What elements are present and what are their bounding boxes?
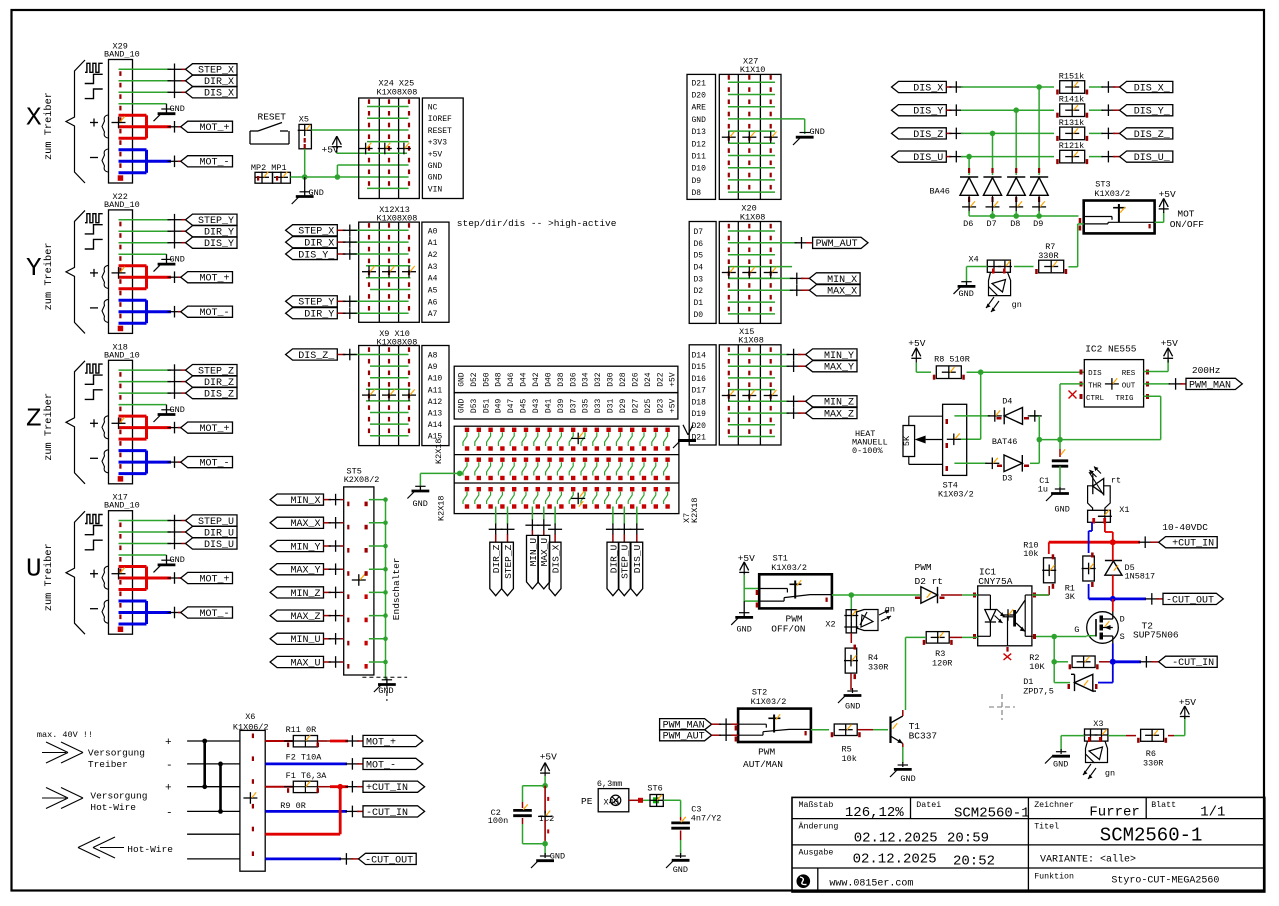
svg-text:GND: GND — [1053, 760, 1068, 770]
svg-text:D2 rt: D2 rt — [915, 576, 944, 587]
wire DIR_Z from K2X18 — [489, 507, 503, 543]
svg-text:A0: A0 — [428, 227, 438, 236]
connector ST4 K1X03/2 — [938, 404, 974, 499]
plus/minus braces Z — [90, 416, 108, 473]
wire STEP_U — [119, 515, 186, 527]
svg-text:DIS_U_: DIS_U_ — [1134, 153, 1171, 164]
wire DIS_X from K2X18 — [548, 507, 562, 543]
svg-text:GND: GND — [457, 372, 466, 387]
svg-text:330R: 330R — [868, 663, 888, 673]
svg-text:+CUT_IN: +CUT_IN — [1172, 539, 1214, 550]
wire THR loop — [1037, 384, 1085, 443]
svg-text:ON/OFF: ON/OFF — [1170, 219, 1205, 230]
pushbutton RESET — [250, 112, 289, 145]
plus minus terminals — [165, 737, 173, 820]
wire R6 to +5V — [1168, 717, 1185, 736]
flag MIN_Z — [270, 587, 323, 600]
svg-text:GND: GND — [428, 162, 443, 171]
ground C2 — [531, 852, 565, 868]
svg-text:0-100%: 0-100% — [852, 446, 884, 456]
flag STEP_X — [286, 225, 338, 238]
wires X12X13 internal rows — [351, 230, 411, 313]
supply +5V at C2 — [540, 752, 557, 786]
svg-text:+5V: +5V — [738, 553, 755, 564]
svg-text:DIR_Y: DIR_Y — [304, 310, 334, 321]
svg-text:DIS_X_: DIS_X_ — [1134, 83, 1171, 94]
svg-text:MP2 MP1: MP2 MP1 — [251, 163, 287, 173]
svg-text:GND: GND — [428, 174, 443, 183]
svg-text:D47: D47 — [507, 399, 516, 414]
svg-text:D33: D33 — [594, 399, 603, 414]
svg-text:STEP_Z: STEP_Z — [503, 544, 514, 579]
connector X5 — [298, 115, 312, 149]
wire MAX_U — [324, 656, 344, 668]
ground X22 — [154, 254, 185, 271]
title www — [829, 878, 913, 889]
resistor R8 510R — [933, 355, 970, 380]
svg-text:DIR_Z: DIR_Z — [491, 544, 502, 573]
svg-text:D8: D8 — [1010, 219, 1020, 229]
svg-text:zum Treiber: zum Treiber — [43, 393, 55, 461]
svg-text:U: U — [26, 554, 42, 584]
svg-text:D49: D49 — [495, 399, 504, 414]
connector X17 BAND_10 — [104, 493, 140, 635]
brace group U axis — [26, 511, 85, 634]
svg-text:X3: X3 — [1093, 719, 1103, 729]
svg-text:A8: A8 — [428, 352, 438, 361]
svg-text:F2 T10A: F2 T10A — [286, 753, 323, 763]
svg-text:DIS: DIS — [1088, 370, 1102, 378]
wire R3 to IC1 — [950, 636, 978, 638]
wire R7 to X4 — [1014, 266, 1034, 268]
resistor R10 10K — [1023, 541, 1056, 589]
diode D6 BA46 — [960, 168, 978, 229]
connector X29 BAND_10 — [104, 42, 140, 184]
svg-text:GND: GND — [900, 774, 915, 784]
flag MOT_- U — [181, 607, 233, 620]
fuse F1 T6,3A / R9 0R — [280, 771, 327, 811]
flag DIS_X_ — [1120, 81, 1173, 94]
flag MOT_- Z — [181, 457, 233, 470]
wire RES to +5V — [1144, 360, 1169, 372]
svg-text:1N5817: 1N5817 — [1125, 572, 1156, 582]
connector X27 K1X10 — [719, 57, 781, 200]
svg-text:D5: D5 — [694, 252, 704, 261]
svg-text:10k: 10k — [842, 754, 857, 764]
flag MIN_Z right — [806, 396, 857, 409]
wire MIN_Y — [324, 540, 344, 552]
svg-text:+5V: +5V — [1161, 338, 1178, 349]
pin label box X20 — [689, 222, 716, 324]
svg-text:+5V: +5V — [1179, 697, 1196, 708]
arrow Hot-Wire — [78, 837, 124, 858]
svg-text:IC2 NE555: IC2 NE555 — [1085, 344, 1137, 355]
flag DIS_U vertical — [631, 542, 643, 596]
capacitor C1 1u — [1038, 461, 1068, 495]
svg-text:D7: D7 — [987, 219, 997, 229]
svg-text:R15: R15 — [1059, 72, 1074, 82]
wire MIN_Z — [324, 587, 344, 599]
label PWM AUT/MAN — [743, 747, 783, 771]
svg-text:K2X18: K2X18 — [690, 497, 700, 523]
svg-text:GND: GND — [810, 127, 825, 137]
resistor R6 330R — [1137, 729, 1167, 768]
wire DIS_X — [119, 87, 186, 99]
wire PWM_AUT — [795, 237, 813, 249]
svg-text:PE: PE — [581, 796, 593, 807]
wires X15 internal rows — [728, 355, 789, 437]
svg-text:K2X18: K2X18 — [437, 495, 447, 521]
svg-text:D6: D6 — [963, 219, 973, 229]
pin label box X24X25 — [422, 98, 463, 199]
svg-text:A12: A12 — [428, 398, 443, 407]
label PWM OFF/ON — [771, 614, 805, 635]
svg-text:120R: 120R — [932, 659, 952, 669]
svg-text:02.12.2025: 02.12.2025 — [854, 831, 938, 847]
switch ST1 K1X03/2 — [756, 554, 832, 609]
label max 40V — [37, 730, 93, 740]
flag MIN_U vertical — [527, 535, 539, 589]
svg-text:-: - — [166, 808, 173, 820]
svg-text:D21: D21 — [692, 79, 707, 88]
wire MIN_X — [790, 273, 810, 285]
wire DIS_X to diode — [1038, 87, 1040, 175]
svg-text:D39: D39 — [557, 399, 566, 414]
connector X1 — [1088, 505, 1130, 524]
svg-text:Versorgung: Versorgung — [88, 748, 145, 759]
svg-text:1k: 1k — [1074, 95, 1084, 105]
svg-text:D43: D43 — [532, 399, 541, 414]
svg-text:MOT_-: MOT_- — [199, 158, 229, 169]
svg-text:BAND_10: BAND_10 — [104, 350, 140, 360]
wire DIR_Y — [337, 307, 357, 319]
svg-text:D7: D7 — [694, 228, 704, 237]
svg-text:MAX_Y: MAX_Y — [290, 566, 320, 577]
svg-text:Datei: Datei — [916, 800, 941, 810]
svg-text:GND: GND — [378, 686, 393, 696]
svg-text:Titel: Titel — [1034, 822, 1059, 832]
wire MIN_Z — [787, 396, 806, 408]
flag MAX_U vertical — [538, 535, 550, 589]
ground X3 — [1045, 749, 1070, 770]
svg-text:TRIG: TRIG — [1116, 395, 1135, 403]
connector X15 K1X08 — [719, 327, 781, 445]
flag DIR_U vertical — [607, 542, 619, 596]
svg-text:Styro-CUT-MEGA2560: Styro-CUT-MEGA2560 — [1111, 876, 1219, 887]
svg-text:GND: GND — [170, 254, 185, 264]
flag PWM_MAN right — [1186, 378, 1242, 391]
svg-text:MIN_Z: MIN_Z — [290, 589, 320, 600]
flag DIS_X — [186, 87, 238, 100]
wire -CUT_IN net — [1110, 656, 1159, 668]
resistor R14 1k — [1056, 95, 1088, 118]
resistor R15 1k — [1056, 72, 1088, 95]
diode D9 BA46 — [1030, 168, 1048, 229]
svg-text:gn: gn — [885, 605, 895, 615]
svg-text:ST3: ST3 — [1095, 180, 1110, 190]
wire STEP_U from K2X18 — [617, 507, 631, 543]
wire DIS_U from K2X18 — [630, 507, 644, 543]
svg-text:D52: D52 — [470, 372, 479, 387]
svg-text:Blatt: Blatt — [1151, 800, 1176, 810]
svg-text:DIS_Z: DIS_Z — [913, 130, 943, 141]
wire STEP_Z — [119, 364, 186, 376]
svg-text:VARIANTE: <alle>: VARIANTE: <alle> — [1040, 854, 1136, 866]
svg-text:Furrer: Furrer — [1089, 805, 1139, 821]
ground X17 — [154, 555, 185, 572]
svg-text:MOT_+: MOT_+ — [199, 274, 229, 285]
wire GND pin4 X18 — [119, 404, 167, 406]
wire +CUT_IN net — [1049, 536, 1159, 548]
wire junction down to ST4 — [947, 372, 981, 445]
led rt at X1 — [1088, 467, 1122, 511]
supply +5V at X24X25 — [322, 136, 408, 155]
svg-text:MOT_-: MOT_- — [199, 609, 229, 620]
svg-text:D15: D15 — [692, 363, 707, 372]
wire diode common to ST3 — [969, 215, 1078, 217]
wire MAX_Y — [787, 360, 806, 372]
svg-text:MAX_U: MAX_U — [290, 658, 320, 669]
wire IC1 collector to R10 — [1032, 594, 1049, 596]
wire RESET net — [311, 129, 408, 131]
svg-text:X2: X2 — [825, 620, 835, 630]
wire GND pin4 X22 — [119, 253, 167, 255]
svg-text:MAX_X: MAX_X — [827, 287, 857, 298]
svg-text:MOT_-: MOT_- — [366, 760, 396, 771]
wire R10 top — [1048, 542, 1050, 554]
flag MOT_+ X — [181, 121, 233, 134]
connector ST6 — [647, 784, 663, 807]
svg-text:200Hz: 200Hz — [1192, 365, 1221, 376]
flag DIS_U_ — [1120, 151, 1173, 164]
wire X5 to GND junction — [304, 149, 306, 177]
brace group Z axis — [26, 361, 85, 484]
svg-text:Zeichner: Zeichner — [1034, 800, 1074, 810]
flag -CUT_IN right — [1159, 656, 1218, 669]
sheet origin crosshair — [989, 694, 1015, 720]
svg-text:+: + — [165, 783, 172, 795]
svg-text:RESET: RESET — [428, 127, 452, 136]
svg-text:-CUT_OUT: -CUT_OUT — [365, 855, 413, 866]
wire R8 to IC2 DIS — [967, 369, 1085, 375]
ground K2X18 left — [407, 486, 429, 509]
title Titel — [1034, 822, 1202, 847]
wire +5V to ST1 — [744, 575, 759, 601]
svg-text:PWM: PWM — [758, 747, 775, 758]
wire MAX_Z — [324, 610, 344, 622]
wire X4 to GND — [967, 267, 988, 282]
wire +5V to R8 — [916, 371, 931, 373]
svg-text:BAND_10: BAND_10 — [104, 501, 140, 511]
wire GND into K2X18 — [420, 471, 462, 487]
ground X4 — [954, 281, 976, 299]
connector X2 — [825, 610, 858, 633]
flag STEP_Y — [286, 296, 338, 309]
flag MAX_Z — [270, 610, 323, 623]
wire STEP_X — [119, 64, 186, 76]
svg-text:R5: R5 — [842, 744, 852, 754]
title Variante — [1040, 854, 1136, 866]
wire DIS_Z to diode — [992, 133, 994, 175]
title Massstab — [799, 800, 905, 821]
svg-text:BAND_10: BAND_10 — [104, 200, 140, 210]
svg-text:D26: D26 — [631, 372, 640, 387]
flag DIR_X — [186, 75, 238, 88]
svg-text:GND: GND — [457, 399, 466, 414]
svg-text:D10: D10 — [692, 165, 707, 174]
svg-text:D9: D9 — [1033, 219, 1043, 229]
flag MOT_+ Y — [181, 272, 233, 285]
label MOT ON/OFF — [1170, 209, 1205, 230]
svg-text:+5V: +5V — [669, 372, 678, 387]
svg-text:GND: GND — [413, 499, 428, 509]
svg-text:-CUT_IN: -CUT_IN — [1172, 658, 1214, 669]
flag STEP_X — [186, 64, 238, 77]
flag MAX_X — [270, 517, 323, 530]
svg-text:GND: GND — [673, 865, 688, 875]
wire DIR_Z — [119, 376, 186, 388]
transistor T1 BC337 — [891, 710, 938, 743]
svg-text:Endschalter: Endschalter — [391, 557, 402, 620]
flag DIS_U right section — [892, 151, 947, 164]
svg-text:K2X18: K2X18 — [434, 438, 444, 464]
svg-text:+5V: +5V — [1159, 189, 1176, 200]
svg-text:D18: D18 — [692, 398, 707, 407]
resistor R7 330R — [1035, 242, 1067, 274]
connector PE X40 6.3mm — [581, 789, 629, 812]
wire MOT_- Y — [119, 300, 182, 323]
switch ST2 K1X03/2 — [735, 688, 811, 743]
svg-text:THR: THR — [1088, 383, 1102, 391]
svg-text:IC2: IC2 — [539, 814, 554, 824]
wire STEP_Z from K2X18 — [501, 507, 515, 543]
flag STEP_Y — [186, 214, 238, 227]
flag DIS_Y right section — [892, 105, 947, 118]
wire MAX_X — [790, 284, 810, 296]
wire D3 to junction — [1030, 440, 1060, 464]
wire MAX_Y — [324, 563, 344, 575]
diode D5 1N5817 — [1105, 542, 1155, 599]
label X7 K2X18 right — [682, 497, 700, 523]
capacitor C2 100n — [488, 802, 532, 826]
wire ST4 bottom to D3 — [954, 458, 999, 470]
wire ST1 out — [832, 592, 920, 598]
svg-text:K1X08: K1X08 — [740, 212, 766, 222]
connector X9 X10 K1X08X08 — [359, 329, 420, 446]
svg-text:D19: D19 — [692, 410, 707, 419]
wire ST3 to +5V — [1155, 212, 1164, 222]
svg-text:K1X08: K1X08 — [738, 335, 764, 345]
svg-text:D40: D40 — [544, 372, 553, 387]
svg-text:PWM_MAN: PWM_MAN — [1189, 380, 1231, 391]
svg-text:D35: D35 — [582, 399, 591, 414]
connector X20 K1X08 — [719, 204, 781, 324]
svg-text:+: + — [165, 737, 172, 749]
svg-text:X1: X1 — [1119, 505, 1129, 515]
svg-text:ST2: ST2 — [752, 688, 767, 698]
svg-text:GND: GND — [309, 188, 324, 198]
svg-text:R12: R12 — [1059, 141, 1074, 151]
supply +5V at IC2 — [1161, 338, 1178, 363]
svg-text:D29: D29 — [619, 399, 628, 414]
wires X27 internal rows — [728, 82, 805, 192]
svg-text:D20: D20 — [692, 92, 707, 101]
ground X18 — [154, 405, 185, 422]
wire -CUT_IN bottom — [265, 806, 363, 818]
mosfet T2 SUP75N06 — [1074, 612, 1179, 644]
wire -CUT_OUT net — [1089, 584, 1163, 605]
flag STEP_Z vertical — [502, 542, 514, 596]
svg-text:D36: D36 — [569, 372, 578, 387]
ground below X5 — [292, 177, 324, 204]
svg-text:A13: A13 — [428, 410, 443, 419]
flag DIS_Z — [286, 349, 338, 362]
svg-text:ZPD7,5: ZPD7,5 — [1023, 687, 1054, 697]
pads K2X18 — [465, 428, 670, 509]
svg-text:DIS_U: DIS_U — [913, 153, 943, 164]
svg-text:R11 0R: R11 0R — [286, 725, 317, 735]
flag MAX_Z right — [806, 407, 857, 420]
svg-text:gn: gn — [1105, 769, 1115, 779]
svg-text:100n: 100n — [488, 816, 508, 826]
svg-text:SCM2560-1: SCM2560-1 — [1100, 825, 1203, 847]
flag PWM_AUT left — [660, 730, 712, 743]
pin label box X15 — [689, 345, 716, 445]
plus/minus braces U — [90, 566, 108, 623]
flag MOT_- bottom — [363, 758, 423, 771]
wire DIR_U from K2X18 — [606, 507, 620, 543]
svg-text:D3: D3 — [694, 275, 704, 284]
wire DIS_U net — [946, 151, 1054, 163]
wire MOT_- U — [119, 601, 182, 624]
crosses X20 — [722, 267, 778, 279]
flag PWM_AUT — [813, 237, 868, 250]
svg-text:DIR_U: DIR_U — [608, 544, 619, 573]
svg-text:DIS_Y: DIS_Y — [913, 107, 943, 118]
svg-text:R8 510R: R8 510R — [934, 355, 970, 365]
svg-text:D38: D38 — [557, 372, 566, 387]
connector X18 BAND_10 — [104, 342, 140, 484]
flag MIN_X right — [809, 273, 860, 286]
wire DIS_U to diode — [968, 157, 970, 175]
svg-text:ST6: ST6 — [647, 784, 662, 794]
potentiometer 5K — [902, 416, 943, 464]
svg-text:-: - — [166, 760, 173, 772]
ground ST1 — [731, 601, 753, 634]
svg-text:D44: D44 — [520, 372, 529, 387]
svg-text:DIS_Z_: DIS_Z_ — [298, 351, 335, 362]
svg-text:step/dir/dis -- >high-active: step/dir/dis -- >high-active — [457, 218, 617, 229]
svg-text:D50: D50 — [482, 372, 491, 387]
svg-text:STEP_U: STEP_U — [620, 544, 631, 579]
wire DIS_Z net — [946, 128, 1054, 140]
wire DIS_Y_ net — [1089, 104, 1120, 116]
svg-text:K1X03/2: K1X03/2 — [751, 697, 787, 707]
svg-text:PWM_AUT: PWM_AUT — [816, 239, 858, 250]
svg-text:20:59: 20:59 — [947, 831, 989, 847]
svg-text:rt: rt — [1111, 476, 1121, 486]
label Versorgung Hot-Wire — [90, 791, 147, 814]
wire ST5 ground rail — [369, 497, 388, 680]
svg-text:IOREF: IOREF — [428, 115, 452, 124]
note step/dir/dis — [457, 218, 617, 229]
svg-text:MOT_+: MOT_+ — [199, 574, 229, 585]
svg-text:Z: Z — [26, 403, 42, 433]
svg-text:MOT_-: MOT_- — [199, 459, 229, 470]
svg-text:1k: 1k — [1074, 141, 1084, 151]
svg-text:GND: GND — [845, 702, 860, 712]
waveform glyphs X — [85, 63, 103, 98]
